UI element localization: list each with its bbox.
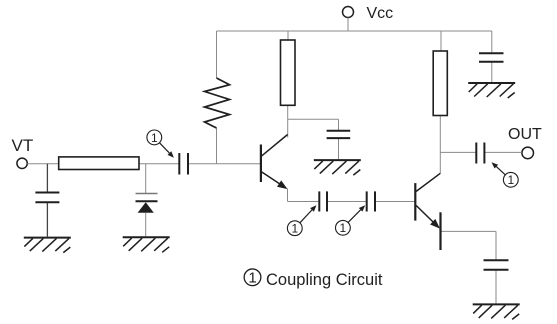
capacitor C8 plate top	[484, 259, 509, 261]
capacitor C4 plate left	[475, 143, 477, 164]
varactor D1 cathode bar	[136, 200, 158, 202]
callout arrowhead at C4	[492, 162, 499, 168]
transistor Q2 emitter	[416, 206, 433, 223]
svg-text:VT: VT	[12, 136, 34, 155]
capacitor C5 plate bottom	[35, 201, 59, 203]
wire collector node to C6	[288, 118, 339, 120]
wire emitter bar to C8	[441, 230, 497, 232]
wire node to resistor bottom	[216, 128, 218, 164]
capacitor C5 plate top	[35, 192, 59, 194]
svg-text:1: 1	[151, 131, 158, 145]
emitter node bar	[439, 212, 441, 250]
stripline box Z1	[59, 157, 139, 170]
callout arrowhead at C1	[168, 151, 174, 158]
varactor D1 top plate	[136, 193, 158, 195]
capacitor C2 plate left	[318, 191, 320, 211]
wire C6 bottom lead to ground	[338, 139, 340, 160]
capacitor C1 plate left	[178, 153, 180, 175]
callout arrow at C3	[348, 210, 361, 223]
wire rail to box2 top	[287, 31, 289, 40]
wire node to varactor	[145, 164, 147, 193]
capacitor C2 plate right	[326, 191, 328, 211]
callout arrow at C4	[496, 167, 505, 175]
svg-text:Vcc: Vcc	[367, 5, 394, 22]
transistor Q2 collector	[416, 173, 440, 191]
capacitor C7 plate bottom	[479, 61, 504, 63]
wire C4 to OUT terminal	[484, 151, 521, 153]
capacitor C1 plate right	[187, 153, 189, 175]
capacitor C4 plate right	[483, 143, 485, 164]
transistor Q2 base bar	[414, 183, 416, 221]
callout 1 circle at C1	[147, 130, 162, 145]
wire collector node to C4	[440, 151, 476, 153]
transistor Q1 collector	[262, 135, 288, 156]
callout arrowhead at C3	[359, 205, 365, 211]
wire C7 to ground	[491, 62, 493, 82]
ground G2	[123, 237, 170, 252]
wire Q2 collector vertical	[439, 152, 441, 173]
capacitor C6 plate bottom	[327, 137, 351, 139]
svg-text:1: 1	[248, 270, 256, 287]
svg-text:Coupling Circuit: Coupling Circuit	[266, 271, 383, 289]
terminal VT	[17, 158, 27, 168]
callout 1 circle at C2	[287, 221, 302, 236]
ground G5	[473, 304, 520, 319]
capacitor C3 plate left	[366, 191, 368, 211]
svg-text:1: 1	[291, 222, 298, 236]
capacitor C6 plate top	[327, 130, 351, 132]
wire emitter to C2	[288, 201, 320, 203]
ground G4	[468, 83, 515, 98]
wire box to C1	[139, 163, 179, 165]
wire Q1 emitter drop	[287, 189, 289, 202]
svg-text:1: 1	[507, 173, 514, 187]
callout 1 circle at C4	[503, 172, 518, 187]
stripline box Z2	[281, 40, 296, 105]
callout arrow at C1	[159, 143, 169, 153]
wire Vcc rail	[217, 30, 492, 32]
transistor Q1 emitter arrow	[277, 180, 288, 189]
transistor Q1 emitter	[262, 172, 281, 185]
transistor Q1 base bar	[260, 145, 262, 183]
wire C3 to Q2 base	[375, 201, 415, 203]
wire box3 bottom to collector node	[439, 116, 441, 153]
svg-text:OUT: OUT	[508, 126, 542, 143]
wire varactor to ground	[145, 213, 147, 236]
terminal Vcc	[343, 7, 354, 18]
terminal OUT	[522, 147, 534, 159]
wire Vcc terminal drop	[347, 18, 349, 32]
capacitor C3 plate right	[374, 191, 376, 211]
capacitor C8 plate bottom	[484, 269, 509, 271]
wire C1 to Q1 base	[188, 163, 261, 165]
capacitor C7 plate top	[479, 52, 504, 54]
varactor D1 triangle	[138, 202, 154, 213]
wire VT to box	[27, 163, 58, 165]
wire rail to box3 top	[440, 31, 442, 51]
resistor R1	[205, 78, 230, 128]
wire C6 top lead	[338, 119, 340, 130]
stripline box Z3	[433, 51, 447, 116]
wire C5 to ground	[46, 203, 48, 237]
wire resistor top to rail	[216, 31, 218, 78]
transistor Q2 emitter arrow	[430, 219, 440, 229]
wire rail right end to C7	[491, 31, 493, 53]
callout 1 circle at C3	[336, 220, 351, 235]
wire down to C8	[495, 231, 497, 259]
callout arrow at C2	[300, 210, 312, 223]
svg-text:1: 1	[340, 221, 347, 235]
wire VT node to C5	[46, 164, 48, 192]
wire C8 to ground	[495, 270, 497, 303]
ground G1	[24, 238, 71, 253]
ground G3	[314, 160, 361, 175]
wire C2 to C3	[327, 201, 367, 203]
caption circle 1	[244, 269, 261, 286]
wire box2 bottom to Q1 collector	[287, 105, 289, 137]
callout arrowhead at C2	[310, 205, 316, 212]
